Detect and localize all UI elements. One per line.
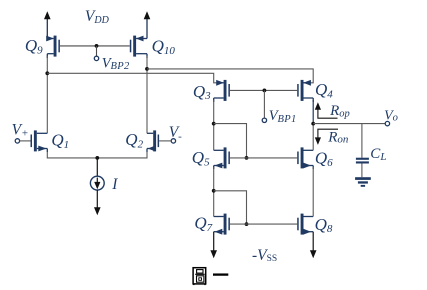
svg-text:V-: V-	[169, 124, 182, 143]
junction dot Q7 gate node	[245, 222, 249, 226]
svg-text:I: I	[111, 176, 118, 193]
transistor Q3 (PMOS, leads left, gate right)	[214, 80, 230, 102]
wire Q9 drain vertical to Q1 drain	[46, 56, 48, 133]
transistor Q1 (NMOS, leads right, gate left)	[31, 130, 48, 152]
transistor Q2 (NMOS, leads left, gate right)	[147, 130, 159, 152]
wire Q3 drain to Q5 gate	[214, 124, 247, 158]
capacitor CL	[356, 158, 369, 164]
wire output to CL	[361, 124, 363, 158]
svg-text:Q5: Q5	[192, 148, 210, 168]
transistor Q8 (NMOS, leads right, gate left)	[297, 214, 313, 235]
wire A: Q9 drain to Q3 source	[47, 73, 222, 83]
svg-text:-VSS: -VSS	[252, 247, 277, 264]
caption 圖一 (Figure 1)	[193, 268, 228, 285]
wire Q5 gate to Q6 gate	[230, 157, 297, 159]
transistor Q4 (PMOS, leads right, gate left)	[297, 80, 313, 102]
svg-text:V+: V+	[12, 122, 29, 140]
wire Q7 gate to Q8 gate	[230, 223, 297, 225]
wire B: Q10 drain to Q4 source	[147, 69, 313, 83]
svg-text:Q4: Q4	[315, 80, 333, 100]
junction dot VBP2 tap	[95, 44, 99, 48]
wire Q4 drain to output node	[312, 100, 314, 124]
wire Q6 drain to output node	[312, 124, 314, 151]
junction dot at Q9 drain / wire A	[45, 71, 49, 75]
svg-text:CL: CL	[370, 146, 386, 163]
terminal VBP2	[94, 56, 98, 60]
transistor Q7 (NMOS, leads left, gate right)	[214, 214, 230, 235]
transistor Q9 (PMOS, leads left, gate right)	[46, 36, 60, 58]
VDD supply arrow right	[144, 11, 151, 38]
svg-text:Q7: Q7	[194, 214, 212, 234]
junction dot output node	[311, 122, 315, 126]
wire output node to Vo	[313, 123, 385, 125]
junction dot Q5 source node	[212, 189, 216, 193]
svg-text:VDD: VDD	[85, 8, 110, 26]
wire V- to Q2 gate	[159, 140, 171, 142]
junction dot VBP1 tap	[263, 89, 267, 93]
terminal VBP1	[262, 118, 266, 122]
svg-text:Rop: Rop	[329, 103, 350, 119]
wire VBP2 stub	[96, 46, 98, 56]
wire Q8 source to VSS arrow	[312, 232, 314, 252]
terminal V+	[15, 139, 19, 143]
svg-text:Ron: Ron	[327, 129, 349, 145]
current source I	[90, 176, 104, 190]
svg-text:VBP2: VBP2	[102, 55, 130, 72]
terminal Vo	[385, 121, 389, 125]
terminal V-	[171, 139, 175, 143]
indicator Rop arrow	[315, 102, 338, 118]
wire Q6 source down to Q8 drain	[312, 167, 314, 217]
wire Q9 gate to Q10 gate	[60, 45, 130, 47]
wire Q10 drain vertical to Q2 drain	[146, 56, 148, 133]
junction dot Q3 drain node	[212, 122, 216, 126]
junction dot tail node	[95, 156, 99, 160]
wire Q5 source to Q7 gate	[214, 191, 247, 224]
junction dot at Q10 drain / wire B	[145, 67, 149, 71]
svg-text:Q3: Q3	[193, 82, 211, 102]
transistor Q5 (NMOS, leads left, gate right)	[214, 147, 230, 169]
transistor Q10 (PMOS, leads right, gate left)	[130, 36, 147, 58]
ground symbol	[355, 177, 371, 187]
wire tail to current source	[96, 158, 98, 176]
wire current source to VSS arrow	[96, 190, 98, 209]
svg-text:Q10: Q10	[152, 37, 176, 57]
svg-text:Q9: Q9	[25, 36, 43, 56]
wire VBP1 stub	[263, 90, 265, 118]
wire Q7 source to VSS arrow	[213, 232, 215, 252]
transistor Q6 (NMOS, leads right, gate left)	[297, 147, 313, 169]
wire Q3 gate to Q4 gate	[230, 89, 297, 91]
svg-text:Q6: Q6	[315, 149, 333, 169]
wire V+ to Q1 gate	[20, 140, 31, 142]
svg-text:VBP1: VBP1	[269, 108, 297, 125]
svg-text:Vo: Vo	[384, 108, 398, 123]
indicator Ron arrow	[315, 129, 338, 145]
wire CL to ground	[361, 164, 363, 178]
junction dot Q5 gate node	[245, 156, 249, 160]
VDD supply arrow left	[44, 11, 51, 38]
wire tail: Q1 source to Q2 source	[47, 152, 147, 158]
svg-text:Q8: Q8	[315, 215, 333, 235]
wire Q5 source down to Q7 drain	[213, 167, 215, 217]
svg-text:Q2: Q2	[125, 130, 143, 150]
wire Q3 drain down to Q5 drain	[213, 100, 215, 150]
svg-text:Q1: Q1	[51, 130, 69, 150]
